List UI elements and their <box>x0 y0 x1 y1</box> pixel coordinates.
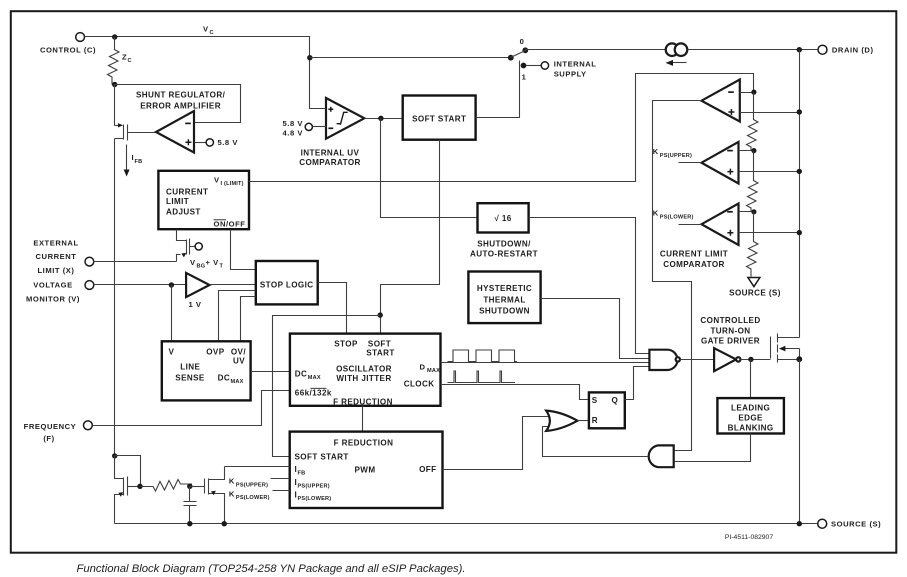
wire KPS upper stub <box>679 162 702 164</box>
wire soft start branch to PWM <box>273 316 381 457</box>
svg-text:D: D <box>419 362 425 371</box>
transistor shunt MOSFET <box>115 123 157 140</box>
node VC junction <box>112 34 117 39</box>
resistor divider R3 <box>747 212 759 277</box>
svg-text:ERROR AMPLIFIER: ERROR AMPLIFIER <box>140 101 221 110</box>
wire V line down to line sense <box>171 285 173 342</box>
svg-text:SOFT START: SOFT START <box>295 453 349 462</box>
block SOFT START <box>403 96 476 140</box>
svg-text:ADJUST: ADJUST <box>166 208 201 217</box>
resistor feedback <box>141 480 193 492</box>
svg-text:Functional Block Diagram (TOP2: Functional Block Diagram (TOP254-258 YN … <box>76 563 465 575</box>
node source bottom <box>797 521 802 526</box>
block CURRENT LIMIT ADJUST <box>158 171 249 229</box>
wire KPS upper to PWM <box>271 478 290 480</box>
svg-text:SHUTDOWN/: SHUTDOWN/ <box>477 240 531 249</box>
svg-text:K: K <box>653 209 659 218</box>
node taps <box>751 90 756 95</box>
svg-text:F REDUCTION: F REDUCTION <box>333 397 393 406</box>
svg-text:C: C <box>128 58 132 64</box>
svg-text:SOURCE (S): SOURCE (S) <box>729 289 781 298</box>
terminal SOURCE (S) <box>818 519 882 528</box>
wire PWM OFF to OR gate <box>443 417 550 470</box>
transistor output MOSFET <box>771 334 800 363</box>
svg-text:GATE DRIVER: GATE DRIVER <box>701 337 760 346</box>
svg-text:(F): (F) <box>43 434 54 443</box>
wire OR to latch R <box>578 420 589 422</box>
svg-text:OSCILLATOR: OSCILLATOR <box>336 364 392 373</box>
capacitor <box>184 487 197 524</box>
gate AND mirrored <box>649 445 674 467</box>
latch SR <box>589 392 625 428</box>
svg-text:4.8 V: 4.8 V <box>283 128 304 137</box>
wire OVP to stop logic <box>219 291 256 342</box>
wire rail down <box>114 85 116 126</box>
wire soft start box down <box>381 140 440 334</box>
svg-text:INTERNAL UV: INTERNAL UV <box>301 148 360 157</box>
node soft start branch <box>378 312 383 317</box>
comparator current limit upper <box>702 80 740 122</box>
svg-text:PS(UPPER): PS(UPPER) <box>660 153 692 159</box>
svg-text:PS(LOWER): PS(LOWER) <box>236 495 270 501</box>
svg-text:C: C <box>210 30 214 36</box>
svg-text:T: T <box>220 264 224 270</box>
wire comparator minus taps <box>739 93 754 212</box>
svg-text:COMPARATOR: COMPARATOR <box>299 158 361 167</box>
wire 4.8V terminal to comparator <box>313 126 327 128</box>
svg-text:V: V <box>190 258 196 267</box>
svg-text:0: 0 <box>520 37 525 46</box>
buffer 1V <box>186 273 209 309</box>
wire UV output down to sqrt16 <box>381 119 478 218</box>
terminal VBG+VT <box>195 243 202 250</box>
svg-text:ON/OFF: ON/OFF <box>214 220 246 229</box>
svg-text:OVP: OVP <box>206 347 224 356</box>
svg-text:LEADING: LEADING <box>731 404 770 413</box>
svg-text:+ V: + V <box>206 258 220 267</box>
svg-text:V: V <box>203 25 209 34</box>
wire hysteretic to NAND input 2 <box>541 299 650 359</box>
svg-text:K: K <box>229 477 235 486</box>
svg-text:HYSTERETIC: HYSTERETIC <box>477 284 532 293</box>
svg-text:MAX: MAX <box>427 368 440 374</box>
svg-text:PS(LOWER): PS(LOWER) <box>660 215 694 221</box>
svg-text:F REDUCTION: F REDUCTION <box>334 438 394 447</box>
wire sqrt16 to NAND input 1 <box>529 218 650 354</box>
node gate <box>748 357 753 362</box>
wire cap net to right FET <box>190 486 205 488</box>
svg-text:FREQUENCY: FREQUENCY <box>24 422 77 431</box>
node V line <box>169 282 174 287</box>
svg-text:PI-4511-082907: PI-4511-082907 <box>725 534 773 541</box>
svg-text:LIMIT: LIMIT <box>166 197 189 206</box>
terminal DRAIN (D) <box>818 45 874 54</box>
svg-text:DC: DC <box>295 369 308 378</box>
svg-text:STOP: STOP <box>334 339 358 348</box>
svg-text:CURRENT: CURRENT <box>36 252 77 261</box>
svg-text:BLANKING: BLANKING <box>728 424 774 433</box>
resistor ZC <box>108 37 120 85</box>
wire 1V buffer to stop logic <box>210 284 256 286</box>
terminal VOLTAGE MONITOR (V) <box>26 281 94 304</box>
svg-text:COMPARATOR: COMPARATOR <box>663 260 725 269</box>
svg-text:CLOCK: CLOCK <box>404 379 435 388</box>
wire AND output to OR input <box>543 427 648 457</box>
block LINE SENSE <box>162 341 251 400</box>
wire NAND to gate driver <box>681 359 715 361</box>
svg-text:V: V <box>214 176 220 185</box>
svg-text:EXTERNAL: EXTERNAL <box>33 239 78 248</box>
svg-text:5.8 V: 5.8 V <box>283 119 304 128</box>
svg-text:Z: Z <box>122 53 127 62</box>
wire KPS lower stub <box>679 224 702 226</box>
wire switch 0 to current source <box>526 50 666 51</box>
svg-text:66k/132k: 66k/132k <box>295 388 332 397</box>
svg-text:LINE: LINE <box>180 362 200 371</box>
wire current limit adjust to sense FET <box>177 230 187 241</box>
svg-text:OFF: OFF <box>419 465 436 474</box>
wire stop logic to oscillator STOP <box>318 283 347 334</box>
node bottom cap <box>187 521 192 526</box>
svg-text:INTERNAL: INTERNAL <box>554 59 597 68</box>
wire F REDUCTION oscillator to PWM <box>362 406 364 432</box>
wire rail continues down <box>114 139 116 456</box>
wire soft start to switch pole 1 <box>476 61 520 118</box>
waveform DMAX <box>448 350 518 362</box>
wire comparator1 output long path to AND <box>653 101 702 451</box>
node gate net <box>137 484 142 489</box>
terminal INTERNAL SUPPLY <box>541 59 596 78</box>
node cap net <box>187 484 192 489</box>
node below ZC <box>112 82 117 87</box>
comparator KPS lower <box>702 204 739 246</box>
wire source rail down <box>799 360 801 524</box>
svg-text:UV: UV <box>233 356 245 365</box>
svg-text:SOFT START: SOFT START <box>412 114 466 123</box>
bottom source wire <box>115 523 818 525</box>
block sqrt 16 <box>478 203 529 232</box>
block OSCILLATOR WITH JITTER <box>290 334 441 407</box>
svg-text:SHUNT REGULATOR/: SHUNT REGULATOR/ <box>136 90 226 99</box>
ground source arrow <box>748 278 760 287</box>
arrow IFB <box>126 145 128 171</box>
wire VI(LIMIT) to resistor chain top <box>249 74 754 182</box>
wire VC node to switch pole <box>310 57 511 59</box>
svg-text:SOFT: SOFT <box>368 339 391 348</box>
wire switch to internal supply <box>527 65 542 67</box>
svg-text:Q: Q <box>612 396 619 405</box>
wire V monitor to 1V buffer <box>94 284 187 286</box>
svg-text:√ 16: √ 16 <box>494 214 511 223</box>
resistor divider R2 <box>747 151 759 212</box>
comparator internal UV <box>310 58 365 139</box>
transistor external current limit FET <box>177 239 196 262</box>
wire driver to MOSFET gate <box>741 359 771 361</box>
svg-text:THERMAL: THERMAL <box>483 295 525 304</box>
svg-text:V: V <box>169 347 175 356</box>
resistor divider R1 <box>747 93 759 151</box>
svg-text:AUTO-RESTART: AUTO-RESTART <box>470 250 538 259</box>
svg-text:CONTROL (C): CONTROL (C) <box>40 46 96 55</box>
wire feedback to error amp inverting input <box>115 85 241 123</box>
svg-text:START: START <box>366 349 394 358</box>
svg-text:SHUTDOWN: SHUTDOWN <box>479 307 530 316</box>
svg-text:SENSE: SENSE <box>175 373 205 382</box>
block PWM / F REDUCTION <box>290 432 443 508</box>
svg-text:TURN-ON: TURN-ON <box>710 326 750 335</box>
svg-text:MONITOR (V): MONITOR (V) <box>26 294 80 303</box>
svg-text:PS(UPPER): PS(UPPER) <box>236 482 268 488</box>
node drain rail top <box>797 47 802 52</box>
svg-text:MAX: MAX <box>308 375 321 381</box>
svg-text:EDGE: EDGE <box>738 414 763 423</box>
wire current source to drain <box>688 49 818 51</box>
svg-text:I (LIMIT): I (LIMIT) <box>221 181 244 187</box>
svg-text:PWM: PWM <box>355 465 376 474</box>
svg-text:BG: BG <box>197 264 206 270</box>
svg-text:SOURCE (S): SOURCE (S) <box>831 520 881 529</box>
wire UV comparator output to soft start <box>365 118 403 120</box>
svg-text:FB: FB <box>135 159 143 165</box>
terminal EXTERNAL CURRENT LIMIT (X) <box>33 239 93 275</box>
block STOP LOGIC <box>256 261 318 304</box>
svg-text:1: 1 <box>522 73 527 82</box>
terminal CONTROL (C) <box>40 33 96 55</box>
wire 5.8V reference <box>195 142 207 144</box>
wire CLOCK to latch S <box>441 385 589 400</box>
svg-text:VOLTAGE: VOLTAGE <box>33 281 72 290</box>
svg-text:1 V: 1 V <box>188 300 201 309</box>
svg-text:LIMIT (X): LIMIT (X) <box>37 266 74 275</box>
svg-text:PS(LOWER): PS(LOWER) <box>298 496 332 502</box>
svg-text:K: K <box>229 489 235 498</box>
node feedback branch <box>112 453 117 458</box>
node switch feed <box>307 55 312 60</box>
wire frequency to oscillator 66k <box>93 391 290 426</box>
wire X to FET <box>94 261 177 263</box>
wire OV/UV to stop logic <box>241 297 256 342</box>
wire DMAX to NAND input 3 <box>441 362 650 364</box>
wire IFB to PWM <box>225 466 290 468</box>
svg-text:DC: DC <box>218 373 231 382</box>
wire drain rail <box>799 50 801 338</box>
wire control to VC node <box>85 37 310 58</box>
terminal FREQUENCY (F) <box>24 421 93 443</box>
wire branch to sense FET gate <box>115 456 141 487</box>
comparator KPS upper <box>702 142 739 184</box>
waveform CLOCK <box>448 371 516 383</box>
svg-text:MAX: MAX <box>231 379 244 385</box>
svg-text:OV/: OV/ <box>231 347 246 356</box>
svg-text:S: S <box>592 396 598 405</box>
wire ON/OFF to stop logic <box>231 230 256 270</box>
wire latch Q to NAND input 4 <box>625 367 650 400</box>
wire gate node to LEB <box>750 360 752 399</box>
node bottom fet <box>222 521 227 526</box>
buffer gate driver <box>714 348 740 371</box>
node UV output <box>378 116 383 121</box>
svg-text:K: K <box>653 147 659 156</box>
gate OR <box>546 411 577 431</box>
op-amp shunt regulator / error amplifier <box>156 111 194 153</box>
svg-text:5.8 V: 5.8 V <box>218 138 239 147</box>
svg-text:CONTROLLED: CONTROLLED <box>700 316 760 325</box>
transistor feedback FET right <box>205 467 225 524</box>
terminal 5.8 V <box>206 139 213 146</box>
wire comparator plus taps to drain rail <box>739 113 800 233</box>
svg-text:FB: FB <box>298 470 306 476</box>
wire line sense DCMAX to oscillator <box>251 371 290 373</box>
svg-text:PS(UPPER): PS(UPPER) <box>298 483 330 489</box>
svg-text:SUPPLY: SUPPLY <box>554 70 587 79</box>
svg-text:CURRENT LIMIT: CURRENT LIMIT <box>660 250 728 259</box>
node source <box>796 356 802 362</box>
current source <box>666 43 688 66</box>
svg-text:DRAIN (D): DRAIN (D) <box>832 46 874 55</box>
gate NAND <box>649 350 680 370</box>
svg-text:WITH JITTER: WITH JITTER <box>336 374 391 383</box>
block LEADING EDGE BLANKING <box>717 398 784 433</box>
wire KPS lower to PWM <box>273 490 290 492</box>
svg-text:R: R <box>592 416 598 425</box>
svg-text:STOP LOGIC: STOP LOGIC <box>260 281 314 290</box>
terminal 5.8V/4.8V <box>283 119 313 137</box>
block HYSTERETIC THERMAL SHUTDOWN <box>468 272 540 324</box>
svg-text:CURRENT: CURRENT <box>166 188 208 197</box>
wire LEB to AND input <box>674 434 751 462</box>
switch select <box>508 37 528 82</box>
transistor feedback FET left <box>115 456 141 524</box>
